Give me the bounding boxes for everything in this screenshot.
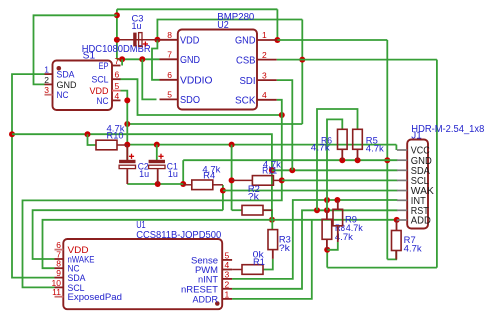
- svg-text:NC: NC: [97, 96, 109, 106]
- wire VDD top link C3 to CSB drop: [157, 20, 302, 40]
- resistor R1 body: [242, 265, 263, 275]
- svg-text:3: 3: [44, 85, 49, 95]
- wire R6leg/R8 link: [326, 200, 328, 210]
- junction GND rail at R6 bottom: [339, 157, 345, 163]
- U1 pin 10 SCL stub: [55, 286, 64, 288]
- wire R9 top lead: [337, 200, 339, 210]
- svg-text:R4: R4: [203, 171, 215, 181]
- junction VCC rail at C1 top: [154, 142, 160, 148]
- J1 pin WAK stub: [397, 190, 407, 192]
- svg-text:J1: J1: [411, 131, 422, 142]
- svg-text:5: 5: [115, 81, 120, 91]
- resistor R4 left lead: [183, 184, 192, 186]
- wire NC/ADD rail from U1 pin8: [43, 220, 397, 268]
- svg-text:GND: GND: [180, 54, 200, 66]
- junction GND at SDO branch: [139, 56, 145, 62]
- junction SCL at U2 SCK drop: [279, 112, 285, 118]
- svg-text:NC: NC: [57, 90, 69, 100]
- U2 pin 1 GND stub: [257, 39, 277, 41]
- svg-text:ADD: ADD: [411, 215, 431, 227]
- IC U1 orientation dot: [215, 301, 220, 306]
- resistor R5 body: [353, 129, 363, 149]
- S1 pin 1 SDA stub: [45, 73, 53, 75]
- svg-text:SDI: SDI: [240, 75, 256, 87]
- svg-text:1u: 1u: [132, 21, 142, 31]
- S1 pin 7 EP stub: [112, 65, 121, 67]
- junction SCL at R11 left column: [229, 177, 235, 183]
- U1 pin 7 nWAKE stub: [55, 258, 64, 260]
- junction SDA to J1 branch: [269, 167, 275, 173]
- junction VCC rail at R11 column: [229, 142, 235, 148]
- resistor R4 right lead: [213, 184, 223, 186]
- wire VDD bottom rail: [327, 267, 437, 269]
- S1 pin 4 NC stub: [112, 99, 121, 101]
- wire WAK to J1: [223, 190, 398, 192]
- resistor R7 bottom lead: [395, 251, 397, 260]
- capacitor C1 bottom lead: [157, 169, 159, 184]
- J1 pin INT stub: [397, 199, 407, 201]
- svg-text:9: 9: [56, 268, 61, 278]
- junction GND rail at R5 bottom: [355, 157, 361, 163]
- wire R9 bottom link: [327, 242, 338, 250]
- U2 pin 7 GND stub: [160, 58, 178, 60]
- svg-text:7: 7: [167, 50, 172, 60]
- S1 pin 5 VDD stub: [112, 90, 121, 92]
- svg-text:GND: GND: [235, 35, 256, 47]
- svg-text:6: 6: [167, 70, 172, 80]
- resistor R4 body: [192, 180, 213, 190]
- svg-text:1: 1: [262, 30, 267, 40]
- svg-text:3: 3: [225, 269, 230, 279]
- svg-text:GND: GND: [57, 80, 78, 90]
- wire R11/R2 feed column: [231, 145, 233, 211]
- IC S1 body: [53, 61, 113, 111]
- svg-text:R1: R1: [253, 257, 265, 267]
- U1 pin 2 nRESET stub: [222, 288, 232, 290]
- U1 pin 8 NC stub: [55, 267, 64, 269]
- svg-text:1u: 1u: [168, 169, 178, 179]
- junction at S1 pin4: [124, 97, 130, 103]
- capacitor C2 top lead: [126, 145, 128, 161]
- J1 pin VCC stub: [397, 149, 407, 151]
- svg-text:?k: ?k: [248, 192, 260, 202]
- wire GND mid rail to J1: [183, 159, 397, 161]
- svg-text:S1: S1: [83, 50, 96, 61]
- junction VCC rail at C2: [124, 142, 130, 148]
- svg-text:8: 8: [167, 30, 172, 40]
- svg-text:1u: 1u: [139, 169, 149, 179]
- IC S1 orientation dot: [57, 66, 62, 71]
- wire R8 top lead: [326, 210, 328, 219]
- svg-text:2: 2: [44, 75, 49, 85]
- resistor R2 body: [242, 205, 263, 215]
- U2 pin 4 SCK stub: [257, 99, 277, 101]
- U2 pin 6 VDDIO stub: [160, 79, 178, 81]
- svg-text:SCK: SCK: [235, 95, 256, 107]
- junction SDA at R10: [85, 131, 91, 137]
- svg-text:CSB: CSB: [236, 54, 256, 66]
- wire R2 left feed: [232, 209, 242, 211]
- svg-text:SDO: SDO: [180, 94, 200, 106]
- resistor R10 body: [96, 140, 117, 150]
- svg-text:4: 4: [115, 91, 120, 101]
- resistor R8 bottom lead: [326, 239, 328, 250]
- wire SCL from S1 pin6: [119, 79, 281, 115]
- wire VDD rail upper: [127, 123, 302, 125]
- junction SDA at U2 SDI drop: [289, 167, 295, 173]
- wire VDD riser to R8/R9 join: [326, 250, 328, 268]
- svg-text:1: 1: [44, 65, 49, 75]
- resistor R3 body: [268, 230, 278, 250]
- resistor R11 right lead: [273, 179, 281, 181]
- wire SCL to J1: [282, 179, 398, 181]
- svg-text:SDA: SDA: [57, 70, 75, 80]
- svg-text:5: 5: [167, 90, 172, 100]
- resistor R1 left lead: [232, 269, 242, 271]
- wire GND rail drop to caps: [182, 160, 184, 184]
- wire nINT from U1 pin3: [232, 200, 397, 279]
- resistor R3 bottom lead: [272, 250, 274, 259]
- junction GND at S1 EP branch: [119, 56, 125, 62]
- U1 pin 6 VDD stub: [55, 249, 64, 251]
- wire GND branch to S1 pin2: [34, 15, 117, 84]
- svg-text:U2: U2: [217, 20, 229, 31]
- svg-text:EP: EP: [99, 61, 109, 71]
- IC U1 body: [63, 239, 222, 309]
- connector J1 body: [407, 140, 428, 229]
- wire SDA from S1 pin1: [12, 74, 55, 278]
- U1 pin 1 ADDR stub: [222, 298, 232, 300]
- wire C2/C1 bottoms to GND: [127, 183, 183, 185]
- wire R7 top lead: [396, 220, 398, 230]
- junction VDD at U2 CSB: [299, 57, 305, 63]
- wire GND top rail: [117, 8, 278, 10]
- J1 pin SCL stub: [397, 179, 407, 181]
- svg-text:ExposedPad: ExposedPad: [68, 292, 123, 303]
- svg-text:VDD: VDD: [180, 35, 200, 47]
- resistor R11 left lead: [232, 179, 253, 181]
- wire GND right vertical: [386, 40, 388, 259]
- wire nRESET from U1 pin2: [232, 210, 397, 288]
- resistor R6 body: [338, 129, 348, 149]
- wire GND to right vertical: [277, 39, 387, 41]
- capacitor C3: [133, 33, 142, 47]
- wire GND branch to U2 SDO: [142, 59, 156, 99]
- svg-text:4.7k: 4.7k: [366, 144, 385, 154]
- junction VDD at R8 bottom: [324, 247, 330, 253]
- junction GND at GND rail: [384, 157, 390, 163]
- svg-text:6: 6: [115, 70, 120, 80]
- J1 pin RST stub: [397, 209, 407, 211]
- wire GND rail under U2 top: [117, 58, 160, 60]
- junction RST rail at R8 top: [324, 207, 330, 213]
- junction GND at C1 bottom: [155, 181, 161, 187]
- capacitor C2 plus: [129, 154, 134, 159]
- wire GND hook to R7 bottom: [387, 251, 396, 259]
- svg-text:5: 5: [225, 250, 230, 260]
- U2 pin 3 SDI stub: [257, 79, 277, 81]
- junction SDA bottom node: [269, 217, 275, 223]
- capacitor C3 leads: [117, 39, 160, 41]
- svg-text:HDR-M-2.54_1x8: HDR-M-2.54_1x8: [411, 124, 484, 135]
- U2 pin 5 SDO stub: [160, 98, 178, 100]
- wire SDA to J1: [272, 169, 398, 171]
- resistor R9 body: [333, 209, 343, 226]
- svg-text:2: 2: [262, 50, 267, 60]
- svg-text:11: 11: [52, 287, 61, 297]
- svg-text:1: 1: [225, 289, 230, 299]
- junction SCL at R11 right: [279, 177, 285, 183]
- svg-text:4.7k: 4.7k: [346, 223, 363, 233]
- wire R5 top leg: [317, 109, 358, 210]
- U1 pin 4 PWM stub: [222, 269, 232, 271]
- J1 pin GND stub: [397, 159, 407, 161]
- capacitor C1: [149, 160, 165, 169]
- wire GND right drop from top rail: [276, 9, 278, 40]
- svg-text:4.7k: 4.7k: [404, 244, 423, 254]
- wire R6 top leg: [327, 119, 342, 200]
- U1 pin 11 ExposedPad stub: [55, 296, 64, 298]
- wire R4 right column: [222, 185, 224, 210]
- wire U2 SDI drop: [277, 80, 293, 170]
- wire VDD far right vertical: [436, 60, 438, 268]
- svg-text:7: 7: [115, 56, 120, 66]
- wire CSB to far right vertical: [277, 59, 437, 61]
- J1 pin SDA stub: [397, 169, 407, 171]
- junction RST rail at R5 leg: [314, 207, 320, 213]
- junction ADD at J1/R7: [394, 217, 400, 223]
- wire S1 EP riser: [121, 59, 123, 65]
- svg-text:ADDR: ADDR: [193, 294, 219, 305]
- wire VCC jog into J1: [395, 145, 397, 150]
- resistor R7 body: [392, 231, 402, 251]
- wire VDD jog to U2 VDDIO: [152, 40, 160, 80]
- svg-text:VDDIO: VDDIO: [180, 75, 213, 87]
- capacitor C2 bottom lead: [126, 169, 128, 184]
- svg-text:4.7k: 4.7k: [311, 143, 331, 153]
- J1 pin ADD stub: [397, 219, 407, 221]
- IC U2 body: [178, 30, 257, 110]
- wire VDD CSB vertical: [301, 20, 303, 125]
- svg-text:R11: R11: [262, 166, 277, 176]
- wire R2 right drop: [263, 210, 272, 220]
- wire R1 right to R3 bottom: [263, 259, 273, 270]
- junction SDA rail left: [9, 131, 15, 137]
- junction INT rail at R6 leg: [324, 197, 330, 203]
- wire U2 SCK drop: [23, 100, 282, 288]
- wire R6 bottom lead: [341, 149, 343, 160]
- wire R5 bottom lead: [357, 149, 359, 160]
- S1 pin 6 SCL stub: [112, 78, 121, 80]
- svg-text:CCS811B-JOPD500: CCS811B-JOPD500: [136, 230, 221, 241]
- wire GND left vertical: [116, 9, 118, 59]
- capacitor C3 plus: [143, 41, 148, 46]
- svg-text:3: 3: [262, 70, 267, 80]
- resistor R10 right lead: [117, 144, 127, 146]
- svg-text:R10: R10: [107, 131, 124, 141]
- resistor R8 body: [322, 219, 332, 239]
- junction VDD rail upper at S1 column: [124, 121, 130, 127]
- wire R10 left drop: [88, 134, 97, 145]
- wire VCC rail: [127, 144, 396, 146]
- U2 pin 2 CSB stub: [257, 59, 277, 61]
- U2 pin 8 VDD stub: [160, 39, 178, 41]
- U1 pin 3 nINT stub: [222, 278, 232, 280]
- U1 pin 5 Sense stub: [222, 259, 232, 261]
- resistor R11 body: [252, 176, 273, 186]
- svg-text:?k: ?k: [279, 243, 291, 253]
- svg-text:SCL: SCL: [92, 75, 109, 85]
- wire R3 top lead: [271, 220, 273, 230]
- wire SDA rail: [12, 134, 272, 220]
- wire S1 VDD column: [121, 91, 128, 161]
- S1 pin 3 NC stub: [45, 94, 53, 96]
- junction VDD at C3 right pin: [154, 37, 160, 43]
- junction GND at C3 left pin: [114, 37, 120, 43]
- svg-text:VDD: VDD: [90, 86, 109, 96]
- U1 pin 9 SDA stub: [55, 277, 64, 279]
- junction GND at C3 branch top: [114, 12, 120, 18]
- wire nWAKE from U1 pin7: [33, 210, 223, 259]
- junction GND at U2 pin1: [274, 37, 280, 43]
- wire ADDR from U1 pin1: [232, 220, 312, 299]
- resistor R2 right lead: [263, 209, 272, 211]
- svg-text:2: 2: [225, 279, 230, 289]
- junction INT rail at R9 top: [334, 197, 340, 203]
- junction GND caps wire: [180, 181, 186, 187]
- capacitor C1 plus: [158, 154, 163, 159]
- resistor R9 bottom lead partial: [337, 226, 339, 242]
- svg-text:4: 4: [262, 90, 267, 100]
- capacitor C2: [119, 160, 135, 169]
- junction WAK at R4: [220, 188, 226, 194]
- wire C1 top lead: [156, 145, 158, 161]
- S1 pin 2 GND stub: [45, 83, 53, 85]
